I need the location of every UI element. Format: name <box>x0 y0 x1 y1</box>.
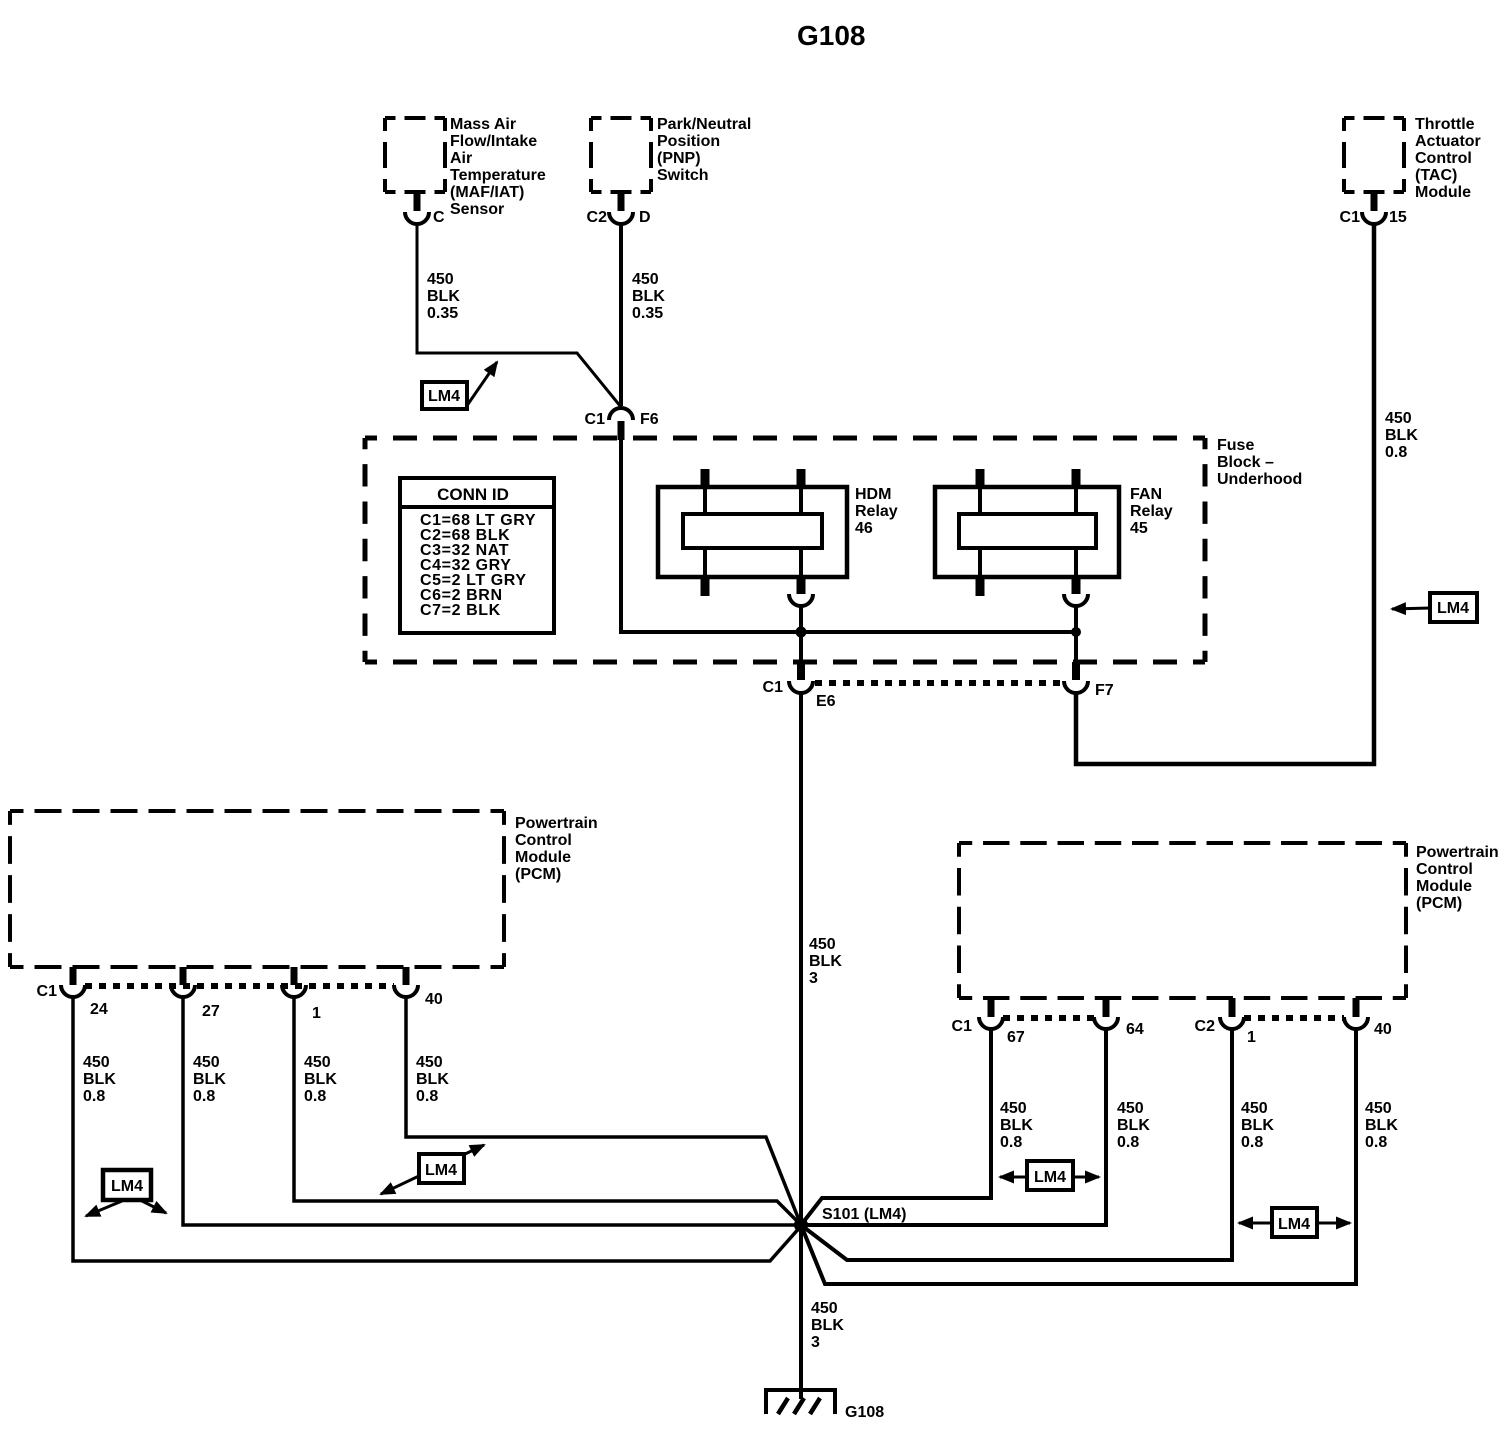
LM4 callout arrow (C2 pins wires) <box>1239 1222 1350 1225</box>
svg-text:D: D <box>639 209 651 226</box>
svg-text:Park/Neutral: Park/Neutral <box>657 116 751 133</box>
PNP switch label <box>657 116 751 184</box>
label 450 BLK 0.35 (PNP) <box>632 271 665 322</box>
svg-text:450: 450 <box>304 1054 331 1071</box>
svg-text:Powertrain: Powertrain <box>1416 844 1499 861</box>
svg-text:Control: Control <box>1415 150 1472 167</box>
FAN relay 45 <box>935 469 1173 606</box>
svg-text:HDM: HDM <box>855 486 891 503</box>
dotted connector line C2 (right PCM) <box>1244 1015 1344 1021</box>
svg-text:0.8: 0.8 <box>416 1088 438 1105</box>
svg-text:C1: C1 <box>952 1018 973 1035</box>
svg-text:40: 40 <box>1374 1021 1392 1038</box>
svg-text:Underhood: Underhood <box>1217 471 1302 488</box>
LM4 callout arrow (pins 1/40 wires) <box>381 1145 484 1194</box>
LM4 callout arrow (MAF wire) <box>466 362 497 407</box>
svg-text:C: C <box>433 209 445 226</box>
label 450 BLK 0.8 (pin27 wire) <box>193 1054 226 1105</box>
svg-text:BLK: BLK <box>632 288 665 305</box>
svg-text:BLK: BLK <box>1241 1117 1274 1134</box>
left PCM label <box>515 815 598 883</box>
LM4 callout box (left pair) <box>103 1170 151 1200</box>
svg-text:Position: Position <box>657 133 720 150</box>
svg-text:Powertrain: Powertrain <box>515 815 598 832</box>
svg-text:0.8: 0.8 <box>193 1088 215 1105</box>
LM4 callout box (C2 pins wires) <box>1272 1208 1317 1237</box>
left PCM pin 40 <box>394 967 443 1008</box>
right PCM pin 64 <box>1094 998 1144 1038</box>
svg-text:Throttle: Throttle <box>1415 116 1475 133</box>
HDM relay 46 <box>658 469 898 606</box>
fuse block label <box>1217 437 1302 488</box>
svg-text:Flow/Intake: Flow/Intake <box>450 133 537 150</box>
svg-text:BLK: BLK <box>304 1071 337 1088</box>
svg-text:Relay: Relay <box>1130 503 1173 520</box>
PNP switch box <box>591 118 651 192</box>
left PCM box <box>10 811 504 967</box>
svg-text:Fuse: Fuse <box>1217 437 1254 454</box>
svg-text:(MAF/IAT): (MAF/IAT) <box>450 184 524 201</box>
label 450 BLK 0.8 (pin1 wire) <box>304 1054 337 1105</box>
svg-text:0.35: 0.35 <box>632 305 663 322</box>
svg-text:450: 450 <box>1117 1100 1144 1117</box>
junction dot at HDM pin <box>796 627 807 638</box>
wire pin27 to S101 <box>183 997 801 1225</box>
svg-text:450: 450 <box>1000 1100 1027 1117</box>
LM4 callout arrow (TAC wire) <box>1392 608 1430 609</box>
svg-text:S101 (LM4): S101 (LM4) <box>822 1206 906 1223</box>
svg-text:(PCM): (PCM) <box>515 866 561 883</box>
svg-text:1: 1 <box>1247 1029 1256 1046</box>
dotted connector line C1 (left PCM) <box>85 983 394 989</box>
svg-text:64: 64 <box>1126 1021 1144 1038</box>
svg-text:24: 24 <box>90 1001 108 1018</box>
svg-text:Module: Module <box>1415 184 1471 201</box>
svg-text:15: 15 <box>1389 209 1407 226</box>
svg-text:450: 450 <box>1385 410 1412 427</box>
right PCM label <box>1416 844 1499 912</box>
label 450 BLK 0.8 (TAC) <box>1385 410 1418 461</box>
svg-text:BLK: BLK <box>193 1071 226 1088</box>
svg-text:27: 27 <box>202 1003 220 1020</box>
LM4 callout box (pins 67/64 wires) <box>1027 1161 1073 1190</box>
svg-text:LM4: LM4 <box>111 1178 143 1195</box>
label 450 BLK 0.35 (MAF) <box>427 271 460 322</box>
svg-text:450: 450 <box>427 271 454 288</box>
LM4 callout box (TAC wire) <box>1430 593 1477 622</box>
dotted connector line E6 to F7 <box>815 680 1063 686</box>
wire pin40 to S101 <box>406 997 801 1225</box>
MAF/IAT sensor box <box>385 118 445 192</box>
label 450 BLK 0.8 (C2 pin1 wire) <box>1241 1100 1274 1151</box>
label 450 BLK 3 (upper) <box>809 936 842 987</box>
svg-text:Sensor: Sensor <box>450 201 504 218</box>
wire 450 BLK 0.35 from MAF <box>417 224 621 407</box>
svg-text:FAN: FAN <box>1130 486 1162 503</box>
Throttle Actuator Control module box <box>1344 118 1404 192</box>
svg-text:1: 1 <box>312 1005 321 1022</box>
svg-text:Block –: Block – <box>1217 454 1274 471</box>
svg-text:E6: E6 <box>816 693 836 710</box>
wire FAN pin to F7 <box>1074 606 1078 662</box>
svg-text:BLK: BLK <box>416 1071 449 1088</box>
MAF/IAT sensor label <box>450 116 546 218</box>
svg-text:C1: C1 <box>1340 209 1361 226</box>
svg-text:45: 45 <box>1130 520 1148 537</box>
label 450 BLK 0.8 (pin67 wire) <box>1000 1100 1033 1151</box>
connector F7 <box>1064 662 1114 699</box>
TAC module label <box>1415 116 1481 201</box>
wire pin64 to S101 <box>801 1029 1106 1225</box>
LM4 callout arrows (left pair) <box>86 1201 122 1216</box>
svg-text:46: 46 <box>855 520 873 537</box>
svg-text:(PCM): (PCM) <box>1416 895 1462 912</box>
left PCM pin 27 <box>171 967 220 1020</box>
wire 450 BLK 3 from S101 to ground <box>799 1225 803 1399</box>
wire pin24 to S101 <box>73 997 801 1261</box>
right PCM pin 40 <box>1344 998 1392 1038</box>
svg-text:Module: Module <box>1416 878 1472 895</box>
svg-text:C1: C1 <box>763 679 784 696</box>
wire 450 BLK 0.35 from PNP <box>619 224 623 406</box>
svg-text:C1: C1 <box>585 411 606 428</box>
wire 450 BLK 3 from E6 to S101 <box>799 693 803 1225</box>
junction dot at FAN pin <box>1071 627 1081 637</box>
svg-text:BLK: BLK <box>809 953 842 970</box>
svg-text:Module: Module <box>515 849 571 866</box>
svg-text:Control: Control <box>1416 861 1473 878</box>
svg-text:(TAC): (TAC) <box>1415 167 1457 184</box>
wire pin1 to S101 <box>294 997 801 1225</box>
TAC connector pin C1 15 <box>1340 193 1407 226</box>
svg-text:BLK: BLK <box>811 1317 844 1334</box>
wire C2 pin1 to S101 <box>801 1029 1232 1260</box>
svg-text:450: 450 <box>809 936 836 953</box>
svg-text:CONN ID: CONN ID <box>437 485 509 504</box>
dotted connector line C1 (right PCM) <box>1003 1015 1094 1021</box>
svg-text:67: 67 <box>1007 1029 1025 1046</box>
svg-text:C2: C2 <box>1195 1018 1216 1035</box>
svg-text:40: 40 <box>425 991 443 1008</box>
CONN ID table <box>400 478 554 633</box>
svg-text:0.8: 0.8 <box>1385 444 1407 461</box>
svg-text:450: 450 <box>1241 1100 1268 1117</box>
svg-text:0.8: 0.8 <box>83 1088 105 1105</box>
svg-text:450: 450 <box>811 1300 838 1317</box>
svg-text:0.8: 0.8 <box>304 1088 326 1105</box>
svg-text:BLK: BLK <box>83 1071 116 1088</box>
svg-text:BLK: BLK <box>1000 1117 1033 1134</box>
right PCM pin 1 <box>1220 998 1256 1046</box>
LM4 callout arrow (pins 67/64 wires) <box>1000 1176 1099 1179</box>
svg-text:G108: G108 <box>845 1404 884 1421</box>
svg-text:Relay: Relay <box>855 503 898 520</box>
left PCM pin 24 <box>61 967 108 1018</box>
MAF connector pin C <box>405 193 445 226</box>
svg-text:Actuator: Actuator <box>1415 133 1481 150</box>
svg-text:0.8: 0.8 <box>1000 1134 1022 1151</box>
svg-text:LM4: LM4 <box>1437 600 1469 617</box>
svg-text:LM4: LM4 <box>1278 1216 1310 1233</box>
svg-text:LM4: LM4 <box>425 1162 457 1179</box>
svg-text:C7=2 BLK: C7=2 BLK <box>420 602 501 619</box>
bus wire inside fuse block <box>619 630 1076 634</box>
svg-text:Mass Air: Mass Air <box>450 116 516 133</box>
wire 450 BLK 0.8 from TAC to F7 <box>1076 224 1374 764</box>
label 450 BLK 0.8 (pin64 wire) <box>1117 1100 1150 1151</box>
wire HDM pin to E6 <box>799 606 803 662</box>
LM4 callout box (MAF wire) <box>422 382 467 409</box>
right PCM pin 67 <box>979 998 1025 1046</box>
label 450 BLK 0.8 (pin40 wire) <box>416 1054 449 1105</box>
svg-text:0.8: 0.8 <box>1117 1134 1139 1151</box>
svg-text:BLK: BLK <box>1117 1117 1150 1134</box>
svg-text:F7: F7 <box>1095 682 1114 699</box>
label 450 BLK 3 (lower) <box>811 1300 844 1351</box>
connector C1 E6 <box>763 662 836 710</box>
svg-text:0.8: 0.8 <box>1365 1134 1387 1151</box>
svg-text:LM4: LM4 <box>1034 1169 1066 1186</box>
svg-text:3: 3 <box>809 970 818 987</box>
LM4 callout box (pins 1/40 wires) <box>419 1154 464 1183</box>
splice S101 <box>794 1218 808 1232</box>
fuse block underhood box <box>365 438 1205 662</box>
right PCM box <box>959 843 1406 998</box>
svg-text:Temperature: Temperature <box>450 167 546 184</box>
svg-text:Control: Control <box>515 832 572 849</box>
wire pin67 to S101 <box>801 1029 991 1225</box>
label 450 BLK 0.8 (pin24 wire) <box>83 1054 116 1105</box>
svg-text:F6: F6 <box>640 411 659 428</box>
svg-text:BLK: BLK <box>1365 1117 1398 1134</box>
ground G108 symbol <box>766 1390 835 1414</box>
svg-text:Air: Air <box>450 150 472 167</box>
svg-text:0.35: 0.35 <box>427 305 458 322</box>
svg-text:3: 3 <box>811 1334 820 1351</box>
svg-text:Switch: Switch <box>657 167 709 184</box>
svg-text:450: 450 <box>1365 1100 1392 1117</box>
svg-text:450: 450 <box>193 1054 220 1071</box>
left PCM pin 1 <box>282 967 321 1022</box>
svg-text:BLK: BLK <box>427 288 460 305</box>
svg-text:G108: G108 <box>797 20 866 51</box>
svg-text:C2: C2 <box>587 209 608 226</box>
svg-text:(PNP): (PNP) <box>657 150 701 167</box>
svg-text:0.8: 0.8 <box>1241 1134 1263 1151</box>
label 450 BLK 0.8 (C2 pin40 wire) <box>1365 1100 1398 1151</box>
svg-text:450: 450 <box>83 1054 110 1071</box>
svg-text:450: 450 <box>632 271 659 288</box>
svg-text:450: 450 <box>416 1054 443 1071</box>
wire C2 pin40 to S101 <box>801 1029 1356 1284</box>
svg-text:LM4: LM4 <box>428 388 460 405</box>
PNP connector pin C2 D <box>587 193 651 226</box>
wire from F6 into fuse block <box>619 440 623 634</box>
connector C1 F6 <box>585 408 659 440</box>
svg-text:C1: C1 <box>37 983 58 1000</box>
svg-text:BLK: BLK <box>1385 427 1418 444</box>
